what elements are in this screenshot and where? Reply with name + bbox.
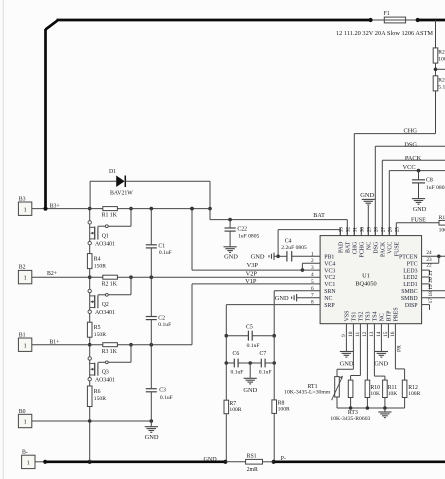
svg-text:VC4: VC4 [324, 261, 335, 267]
svg-text:R25: R25 [438, 50, 445, 56]
svg-text:7: 7 [311, 293, 314, 299]
svg-text:B0: B0 [19, 409, 26, 415]
svg-text:28: 28 [373, 227, 379, 233]
svg-text:150R: 150R [94, 263, 106, 269]
svg-text:DSG: DSG [374, 241, 380, 254]
svg-text:FUSE: FUSE [411, 218, 426, 224]
svg-text:10K-3435-L=30mm: 10K-3435-L=30mm [284, 390, 331, 396]
svg-text:30: 30 [359, 227, 365, 233]
svg-text:0.1uF: 0.1uF [158, 322, 171, 328]
svg-text:100R: 100R [229, 407, 241, 413]
svg-text:NC: NC [367, 242, 373, 250]
svg-text:1: 1 [311, 251, 314, 257]
svg-text:GND: GND [413, 207, 427, 213]
svg-text:25: 25 [394, 227, 400, 233]
svg-text:V3P: V3P [247, 262, 259, 269]
svg-text:GND: GND [204, 457, 218, 463]
svg-text:R3 1K: R3 1K [102, 349, 118, 355]
svg-text:16: 16 [390, 331, 396, 337]
svg-text:PTCEN: PTCEN [399, 255, 418, 261]
svg-text:BTP: BTP [387, 310, 393, 322]
svg-text:V2P: V2P [246, 271, 258, 278]
svg-text:Q1: Q1 [102, 233, 109, 239]
svg-text:PR: PR [397, 345, 403, 352]
svg-text:2: 2 [311, 258, 314, 264]
svg-text:PAD: PAD [339, 241, 345, 253]
svg-text:18: 18 [428, 291, 434, 297]
svg-text:AO3401: AO3401 [95, 310, 115, 316]
svg-text:U1: U1 [362, 272, 370, 279]
svg-text:2.2uF 0805: 2.2uF 0805 [281, 245, 307, 251]
svg-text:100R: 100R [439, 228, 445, 234]
svg-text:GND: GND [374, 361, 388, 368]
svg-text:19: 19 [428, 284, 434, 290]
svg-text:1: 1 [24, 207, 27, 213]
svg-text:1: 1 [24, 276, 27, 282]
svg-text:1: 1 [24, 420, 27, 426]
svg-text:6: 6 [311, 286, 314, 292]
svg-text:PACK: PACK [405, 155, 422, 162]
svg-text:GND: GND [243, 387, 257, 394]
svg-text:26: 26 [387, 227, 393, 233]
svg-text:R4: R4 [94, 257, 101, 263]
svg-text:R6: R6 [94, 389, 101, 395]
svg-text:R5: R5 [94, 325, 101, 331]
svg-text:VCC: VCC [388, 242, 394, 254]
svg-text:15: 15 [383, 331, 389, 337]
svg-text:5: 5 [311, 279, 314, 285]
svg-text:0.1uF: 0.1uF [247, 343, 260, 349]
svg-text:VC1: VC1 [324, 282, 335, 288]
svg-text:0.1uF: 0.1uF [231, 370, 244, 376]
svg-text:2mR: 2mR [247, 467, 258, 473]
svg-text:21: 21 [428, 270, 434, 276]
svg-text:12: 12 [362, 331, 368, 337]
svg-text:SRP: SRP [324, 303, 335, 309]
svg-text:BAT: BAT [346, 241, 352, 253]
svg-text:C8: C8 [426, 178, 433, 184]
svg-text:TS2: TS2 [359, 312, 365, 322]
svg-text:24: 24 [426, 250, 432, 256]
svg-text:DISP: DISP [405, 303, 418, 309]
svg-text:29: 29 [366, 227, 372, 233]
svg-text:VSS: VSS [345, 311, 351, 322]
svg-text:10K: 10K [388, 391, 398, 397]
svg-text:C22: C22 [237, 227, 247, 233]
svg-text:8: 8 [311, 300, 314, 306]
svg-text:B3: B3 [19, 196, 26, 202]
svg-text:GND: GND [340, 361, 354, 368]
svg-text:B2: B2 [19, 265, 26, 271]
svg-text:20: 20 [428, 277, 434, 283]
svg-text:CHG: CHG [353, 241, 359, 254]
svg-text:R2 1K: R2 1K [102, 281, 118, 287]
svg-text:BAV21W: BAV21W [110, 190, 133, 196]
svg-text:0.1uF: 0.1uF [259, 370, 272, 376]
svg-text:Q2: Q2 [102, 302, 109, 308]
svg-text:GND: GND [360, 192, 374, 199]
svg-text:10: 10 [348, 331, 354, 337]
svg-text:C5: C5 [246, 324, 253, 330]
svg-text:100R: 100R [408, 391, 420, 397]
svg-text:B1: B1 [19, 332, 26, 338]
svg-text:33: 33 [338, 227, 344, 233]
svg-text:17: 17 [428, 298, 434, 304]
svg-text:Q3: Q3 [102, 369, 109, 375]
svg-text:SMBD: SMBD [401, 296, 418, 302]
svg-text:LED2: LED2 [403, 275, 417, 281]
svg-text:C1: C1 [158, 244, 165, 250]
svg-text:10K-3435-R0603: 10K-3435-R0603 [330, 416, 370, 422]
svg-text:F1: F1 [384, 11, 390, 17]
svg-text:12 111.20 32V 20A Slow 1206 AS: 12 111.20 32V 20A Slow 1206 ASTM [336, 31, 434, 37]
svg-text:11: 11 [355, 331, 361, 336]
svg-text:B2+: B2+ [47, 271, 57, 277]
svg-text:1uF 0805: 1uF 0805 [238, 233, 259, 239]
svg-text:100K: 100K [438, 57, 445, 63]
svg-text:RS1: RS1 [247, 454, 257, 460]
svg-text:4: 4 [311, 272, 314, 278]
svg-text:TS4: TS4 [373, 312, 379, 322]
svg-text:CHG: CHG [404, 127, 418, 134]
svg-text:1: 1 [27, 461, 30, 467]
svg-text:BAT: BAT [313, 213, 325, 219]
svg-text:C6: C6 [233, 351, 240, 357]
svg-text:100R: 100R [278, 406, 290, 412]
svg-text:PACK: PACK [381, 241, 387, 257]
svg-text:BQ4050: BQ4050 [355, 280, 376, 287]
svg-text:AO3401: AO3401 [95, 242, 115, 248]
svg-text:LED3: LED3 [403, 268, 417, 274]
svg-text:GND: GND [275, 295, 289, 302]
svg-text:9: 9 [341, 334, 347, 337]
svg-text:SMBC: SMBC [401, 289, 417, 295]
svg-text:5.1K: 5.1K [438, 85, 445, 91]
svg-text:150R: 150R [94, 396, 106, 402]
svg-text:GND: GND [145, 434, 159, 441]
svg-text:B-: B- [22, 449, 28, 455]
svg-text:1uF 0805: 1uF 0805 [426, 185, 445, 191]
svg-text:GND: GND [251, 254, 265, 261]
svg-text:22: 22 [426, 262, 432, 268]
svg-text:PCHG: PCHG [360, 241, 366, 257]
svg-text:SRN: SRN [324, 289, 336, 295]
svg-text:0.1uF: 0.1uF [160, 395, 173, 401]
svg-text:27: 27 [380, 227, 386, 233]
svg-text:10K: 10K [370, 391, 380, 397]
svg-text:3: 3 [311, 265, 314, 271]
svg-text:PTC: PTC [407, 261, 418, 267]
svg-text:0.1uF: 0.1uF [159, 250, 172, 256]
svg-text:VC3: VC3 [324, 268, 335, 274]
svg-text:PRES: PRES [394, 307, 400, 321]
svg-text:32: 32 [345, 227, 351, 233]
svg-text:TS3: TS3 [366, 312, 372, 322]
svg-text:1: 1 [24, 343, 27, 349]
svg-text:R1 1K: R1 1K [102, 213, 118, 219]
svg-text:TS1: TS1 [352, 312, 358, 322]
svg-text:C2: C2 [158, 316, 165, 322]
svg-text:C4: C4 [285, 238, 292, 244]
svg-text:V1P: V1P [245, 278, 257, 285]
svg-text:NC: NC [324, 296, 332, 302]
svg-text:C7: C7 [260, 351, 267, 357]
svg-text:31: 31 [352, 227, 358, 233]
svg-text:GND: GND [224, 254, 238, 261]
svg-text:NC: NC [380, 313, 386, 321]
svg-text:C3: C3 [159, 387, 166, 393]
svg-text:VC2: VC2 [324, 275, 335, 281]
svg-text:14: 14 [376, 331, 382, 337]
svg-text:LED1: LED1 [403, 282, 417, 288]
svg-text:R26: R26 [438, 78, 445, 84]
svg-text:R15: R15 [439, 215, 445, 221]
svg-text:P-: P- [281, 456, 286, 462]
svg-text:VCC: VCC [402, 164, 415, 171]
svg-text:DSG: DSG [404, 141, 417, 148]
svg-text:PB1: PB1 [324, 255, 334, 261]
svg-text:13: 13 [369, 331, 375, 337]
svg-text:AO3401: AO3401 [95, 378, 115, 384]
svg-text:150R: 150R [94, 332, 106, 338]
svg-text:D1: D1 [109, 169, 116, 175]
